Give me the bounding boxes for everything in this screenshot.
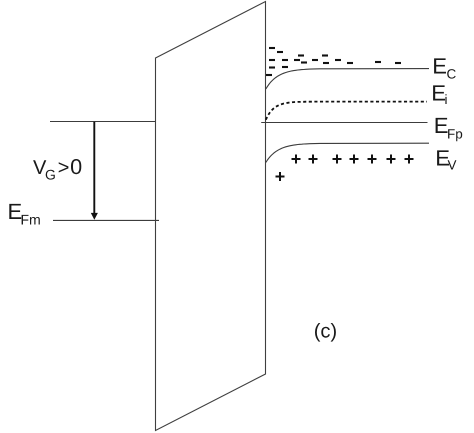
single hole charge (plus) near interface <box>276 172 285 181</box>
hole quasi-fermi level E_Fp line <box>261 122 427 124</box>
gate fermi-level reference line <box>50 121 156 123</box>
label E_C <box>434 58 456 78</box>
label E_V <box>437 150 456 169</box>
caption (c) <box>315 323 336 342</box>
electron charges (minus signs) near interface <box>266 48 401 75</box>
conduction band E_C curve <box>266 69 429 89</box>
intrinsic level E_i dashed curve <box>266 102 427 120</box>
hole charges (plus signs) row above E_V <box>292 155 414 164</box>
valence band E_V curve <box>266 143 429 162</box>
label E_Fp <box>436 118 463 141</box>
label V_G > 0 <box>33 159 81 180</box>
arrow V_G drop <box>91 122 98 220</box>
label E_Fm <box>9 204 40 225</box>
metal fermi level E_Fm line <box>53 219 159 221</box>
oxide layer parallelogram <box>156 2 266 431</box>
label E_i <box>433 85 447 104</box>
